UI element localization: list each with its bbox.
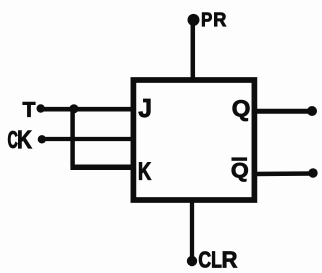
label PR letter R (214, 13, 226, 27)
wire PR vertical (191, 20, 196, 80)
label CLR letter L (212, 251, 221, 267)
label T (23, 102, 35, 116)
wire branch to K (70, 164, 133, 170)
node Q terminal dot (307, 106, 317, 116)
node junction T branch (69, 104, 78, 113)
label PR letter P (202, 13, 212, 26)
label CK letter K (18, 131, 31, 149)
node CK terminal dot (38, 135, 46, 143)
wire CK to clock pin (42, 137, 133, 141)
flip-flop U1 body (133, 80, 254, 200)
node Q-bar terminal dot (308, 168, 317, 177)
node T terminal dot (37, 104, 45, 112)
pin label K (139, 162, 151, 179)
label CLR letter C (199, 252, 211, 268)
pin label J (139, 99, 151, 117)
wire T to J (41, 107, 133, 112)
wire branch vertical (70, 107, 75, 165)
wire Q-bar output (254, 171, 314, 176)
pin label Q-bar overline (232, 157, 248, 160)
wire Q output (254, 109, 313, 114)
pin label Q-bar letter (232, 163, 248, 182)
label CK letter C (8, 131, 17, 148)
wire CLR vertical (190, 200, 194, 261)
label CLR letter R (223, 251, 237, 267)
pin label Q (233, 100, 250, 121)
node PR terminal dot (188, 14, 200, 26)
node CLR terminal dot (187, 256, 197, 266)
